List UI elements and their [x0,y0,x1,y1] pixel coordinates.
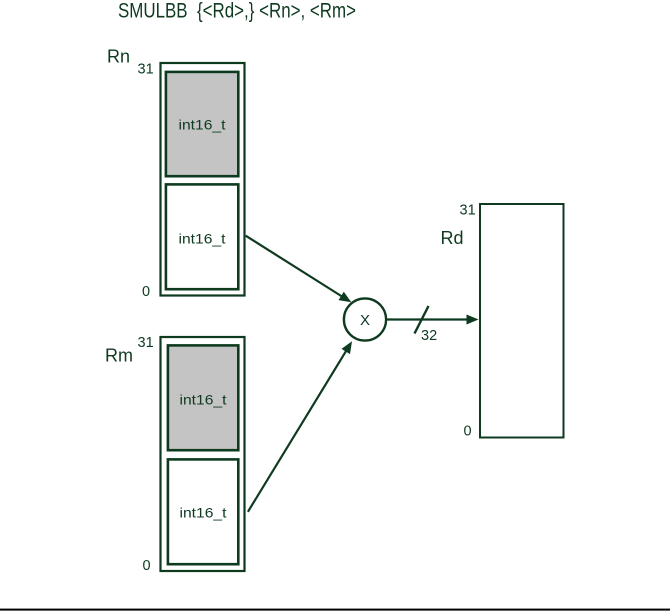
Rn top half field (int16_t, shaded) [166,72,238,176]
wire from Rm low half to multiplier [248,341,352,512]
Rn bottom half field (int16_t) [166,184,238,289]
svg-text:SMULBB {<Rd>,} <Rn>, <Rm>: SMULBB {<Rd>,} <Rn>, <Rm> [118,0,356,23]
svg-text:Rd: Rd [441,228,464,248]
svg-text:int16_t: int16_t [180,505,227,521]
svg-text:31: 31 [460,203,476,219]
register Rd box [480,204,564,438]
bus width slash [415,306,429,334]
svg-text:int16_t: int16_t [179,116,226,132]
svg-text:Rn: Rn [107,47,130,67]
register Rn outer box [161,63,245,296]
register Rm outer box [161,337,245,571]
svg-text:31: 31 [138,62,154,78]
svg-text:int16_t: int16_t [179,230,226,246]
svg-text:31: 31 [138,335,154,351]
svg-text:Rm: Rm [105,346,133,366]
Rm top half field (int16_t, shaded) [168,345,238,450]
svg-text:int16_t: int16_t [180,392,227,408]
svg-text:0: 0 [142,284,150,300]
Rm bottom half field (int16_t) [168,459,238,564]
svg-text:0: 0 [143,558,151,574]
svg-text:32: 32 [421,328,437,344]
wire from multiplier to Rd [387,315,479,325]
bottom rule [0,609,670,611]
multiplier node X [344,298,386,340]
wire from Rn low half to multiplier [246,236,352,303]
svg-text:X: X [360,312,370,329]
svg-text:0: 0 [464,424,472,440]
